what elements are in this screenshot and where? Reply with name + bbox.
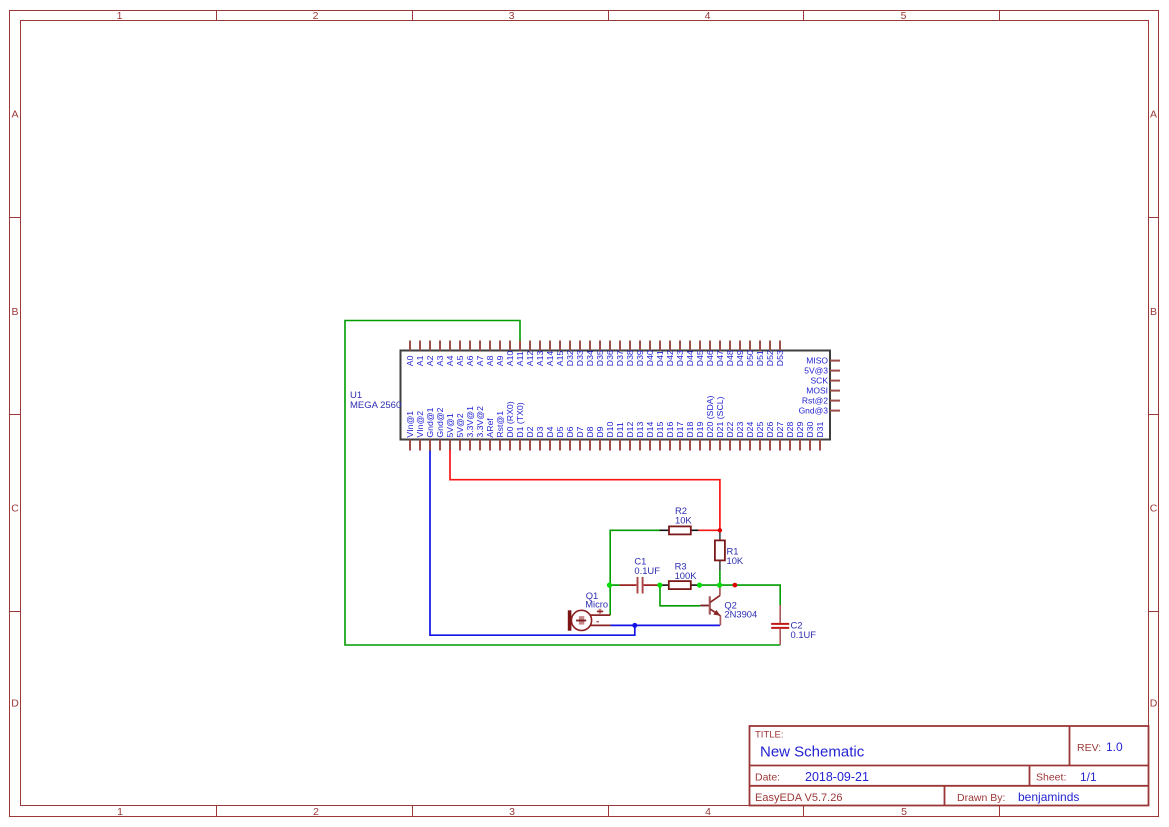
svg-text:3.3V@1: 3.3V@1 <box>465 406 475 438</box>
microphone Q1 <box>568 590 611 631</box>
svg-text:5: 5 <box>901 10 907 22</box>
svg-text:C: C <box>11 503 19 515</box>
svg-text:A15: A15 <box>555 351 565 367</box>
svg-text:Micro: Micro <box>585 599 608 610</box>
pin D39 (top) <box>635 341 645 367</box>
capacitor C1 <box>610 556 660 594</box>
pin D33 (top) <box>575 341 585 367</box>
pin A11 (top) <box>515 341 525 367</box>
svg-text:D45: D45 <box>695 350 705 366</box>
wire: green main node R3 right to C2 top <box>700 585 781 605</box>
pin D6 (bottom) <box>565 426 575 450</box>
pin D52 (top) <box>765 341 775 367</box>
pin 3.3V@1 (bottom) <box>465 406 475 451</box>
pin MOSI (right) <box>806 386 840 396</box>
pin D45 (top) <box>695 341 705 367</box>
pin A3 (top) <box>435 341 445 367</box>
svg-text:A5: A5 <box>455 355 465 366</box>
pin ARef (bottom) <box>485 418 495 451</box>
svg-text:B: B <box>1150 306 1157 318</box>
svg-text:A13: A13 <box>535 351 545 367</box>
svg-text:D35: D35 <box>595 350 605 366</box>
pin D34 (top) <box>585 341 595 367</box>
pin Rst@2 (right) <box>802 396 840 406</box>
svg-text:1.0: 1.0 <box>1106 740 1123 754</box>
pin 5V@3 (right) <box>804 366 840 376</box>
svg-text:D30: D30 <box>805 421 815 437</box>
svg-text:A8: A8 <box>485 355 495 366</box>
svg-text:Rst@1: Rst@1 <box>495 411 505 438</box>
pin A9 (top) <box>495 341 505 367</box>
svg-text:SCK: SCK <box>811 376 829 386</box>
title block <box>750 726 1149 806</box>
wire: green C1 node down to Q2 base <box>660 585 700 606</box>
junction dot green node B <box>657 583 662 588</box>
pin VIn@1 (bottom) <box>405 411 415 451</box>
pin D0 (RX0) (bottom) <box>505 401 515 450</box>
svg-text:2: 2 <box>313 806 319 818</box>
svg-text:3: 3 <box>509 10 515 22</box>
svg-text:D7: D7 <box>575 426 585 437</box>
pin A4 (top) <box>445 341 455 367</box>
wire: green R2 left leg down to mic plus <box>610 530 660 615</box>
pin A1 (top) <box>415 341 425 367</box>
svg-text:D51: D51 <box>755 350 765 366</box>
pin A5 (top) <box>455 341 465 367</box>
pin D12 (bottom) <box>625 421 635 450</box>
pin D20 (SDA) (bottom) <box>705 395 715 450</box>
wire: red 5V from pin 5V@1 to R1/R2 junction <box>450 450 720 530</box>
pin D19 (bottom) <box>695 421 705 450</box>
svg-text:D38: D38 <box>625 350 635 366</box>
svg-text:D53: D53 <box>775 350 785 366</box>
svg-text:D19: D19 <box>695 421 705 437</box>
svg-text:VIn@1: VIn@1 <box>405 411 415 438</box>
pin D41 (top) <box>655 341 665 367</box>
pin Gnd@3 (right) <box>799 406 840 416</box>
svg-text:10K: 10K <box>675 514 692 525</box>
junction dot red node E <box>733 583 738 588</box>
pin D4 (bottom) <box>545 426 555 450</box>
svg-text:B: B <box>11 306 18 318</box>
pin Rst@1 (bottom) <box>495 411 505 451</box>
pin D43 (top) <box>675 341 685 367</box>
svg-text:2N3904: 2N3904 <box>724 609 757 620</box>
svg-text:D0 (RX0): D0 (RX0) <box>505 401 515 437</box>
pin D1 (TX0) (bottom) <box>515 402 525 450</box>
svg-text:Sheet:: Sheet: <box>1036 772 1066 784</box>
pin D31 (bottom) <box>815 421 825 450</box>
svg-text:0.1UF: 0.1UF <box>634 565 660 576</box>
svg-text:VIn@2: VIn@2 <box>415 411 425 438</box>
pin D24 (bottom) <box>745 421 755 450</box>
svg-text:1/1: 1/1 <box>1080 770 1097 784</box>
svg-text:4: 4 <box>705 10 711 22</box>
pin D5 (bottom) <box>555 426 565 450</box>
wire: blue ground from pin Gnd@1 to emitter line <box>430 451 635 636</box>
svg-text:100K: 100K <box>675 570 698 581</box>
svg-text:1: 1 <box>117 10 123 22</box>
svg-text:A3: A3 <box>435 355 445 366</box>
capacitor C2 <box>771 605 816 645</box>
resistor R2 <box>660 505 720 534</box>
pin D51 (top) <box>755 341 765 367</box>
pin D40 (top) <box>645 341 655 367</box>
svg-text:REV:: REV: <box>1077 742 1101 754</box>
svg-text:A9: A9 <box>495 355 505 366</box>
svg-text:A4: A4 <box>445 355 455 366</box>
svg-text:benjaminds: benjaminds <box>1018 790 1079 804</box>
pin D14 (bottom) <box>645 421 655 450</box>
pin 5V@2 (bottom) <box>455 413 465 450</box>
svg-text:A12: A12 <box>525 351 535 367</box>
pin D22 (bottom) <box>725 421 735 450</box>
pin D26 (bottom) <box>765 421 775 450</box>
svg-text:A1: A1 <box>415 355 425 366</box>
svg-text:MEGA 2560: MEGA 2560 <box>350 400 401 411</box>
pin D29 (bottom) <box>795 421 805 450</box>
svg-text:D: D <box>1150 698 1158 710</box>
svg-text:D41: D41 <box>655 350 665 366</box>
pin A12 (top) <box>525 341 535 367</box>
svg-text:D28: D28 <box>785 421 795 437</box>
svg-text:3.3V@2: 3.3V@2 <box>475 406 485 438</box>
svg-text:D26: D26 <box>765 421 775 437</box>
svg-text:D40: D40 <box>645 350 655 366</box>
svg-text:4: 4 <box>705 806 711 818</box>
svg-text:A0: A0 <box>405 355 415 366</box>
junction dot red at R1 top <box>718 528 722 532</box>
pin 3.3V@2 (bottom) <box>475 406 485 451</box>
svg-text:10K: 10K <box>727 555 744 566</box>
resistor R3 <box>660 561 700 590</box>
pin D46 (top) <box>705 341 715 367</box>
svg-text:Gnd@1: Gnd@1 <box>425 407 435 437</box>
svg-text:New Schematic: New Schematic <box>760 744 865 761</box>
pin VIn@2 (bottom) <box>415 411 425 451</box>
pin D48 (top) <box>725 341 735 367</box>
pin A10 (top) <box>505 341 515 367</box>
svg-text:ARef: ARef <box>485 418 495 438</box>
svg-text:D48: D48 <box>725 350 735 366</box>
pin A13 (top) <box>535 341 545 367</box>
pin D47 (top) <box>715 341 725 367</box>
svg-text:D50: D50 <box>745 350 755 366</box>
pin D27 (bottom) <box>775 421 785 450</box>
pin D7 (bottom) <box>575 426 585 450</box>
svg-text:D20 (SDA): D20 (SDA) <box>705 395 715 437</box>
svg-text:D5: D5 <box>555 426 565 437</box>
svg-text:D6: D6 <box>565 426 575 437</box>
pin A8 (top) <box>485 341 495 367</box>
svg-text:Rst@2: Rst@2 <box>802 396 828 406</box>
transistor Q2 2N3904 <box>700 587 757 626</box>
pin D9 (bottom) <box>595 426 605 450</box>
svg-text:5V@1: 5V@1 <box>445 413 455 437</box>
pin D42 (top) <box>665 341 675 367</box>
svg-text:A14: A14 <box>545 351 555 367</box>
svg-text:EasyEDA V5.7.26: EasyEDA V5.7.26 <box>755 792 842 804</box>
pin D3 (bottom) <box>535 426 545 450</box>
svg-text:Gnd@3: Gnd@3 <box>799 406 829 416</box>
pin D38 (top) <box>625 341 635 367</box>
pin D35 (top) <box>595 341 605 367</box>
junction dot green node D (collector/R1) <box>717 583 722 588</box>
pin A14 (top) <box>545 341 555 367</box>
svg-text:D22: D22 <box>725 421 735 437</box>
pin D16 (bottom) <box>665 421 675 450</box>
pin D2 (bottom) <box>525 426 535 450</box>
pin D44 (top) <box>685 341 695 367</box>
svg-text:D32: D32 <box>565 350 575 366</box>
svg-text:D: D <box>11 698 19 710</box>
svg-text:Gnd@2: Gnd@2 <box>435 407 445 437</box>
svg-text:D1 (TX0): D1 (TX0) <box>515 402 525 437</box>
pin A7 (top) <box>475 341 485 367</box>
IC U1 MEGA 2560 body <box>401 351 831 440</box>
svg-text:D8: D8 <box>585 426 595 437</box>
svg-text:D49: D49 <box>735 350 745 366</box>
svg-text:D15: D15 <box>655 421 665 437</box>
pin D18 (bottom) <box>685 421 695 450</box>
svg-text:2018-09-21: 2018-09-21 <box>805 770 869 784</box>
wire: green net from pin A11 loop to left side <box>345 321 780 646</box>
svg-text:D9: D9 <box>595 426 605 437</box>
svg-text:D2: D2 <box>525 426 535 437</box>
svg-text:C: C <box>1150 503 1158 515</box>
svg-text:D23: D23 <box>735 421 745 437</box>
resistor R1 <box>715 530 744 570</box>
pin Gnd@1 (bottom) <box>425 407 435 450</box>
junction dot green node C <box>697 583 702 588</box>
pin D32 (top) <box>565 341 575 367</box>
svg-text:D3: D3 <box>535 426 545 437</box>
svg-text:D37: D37 <box>615 350 625 366</box>
pin Gnd@2 (bottom) <box>435 407 445 450</box>
svg-text:D34: D34 <box>585 350 595 366</box>
svg-text:Date:: Date: <box>755 772 780 784</box>
svg-text:D33: D33 <box>575 350 585 366</box>
svg-text:D18: D18 <box>685 421 695 437</box>
pin D8 (bottom) <box>585 426 595 450</box>
wire: blue mic minus to Q2 emitter <box>611 624 721 626</box>
svg-text:MISO: MISO <box>806 356 828 366</box>
svg-text:D46: D46 <box>705 350 715 366</box>
svg-text:MOSI: MOSI <box>806 386 828 396</box>
svg-text:D44: D44 <box>685 350 695 366</box>
pin D28 (bottom) <box>785 421 795 450</box>
pin 5V@1 (bottom) <box>445 413 455 450</box>
svg-text:D21 (SCL): D21 (SCL) <box>715 396 725 437</box>
pin A0 (top) <box>405 341 415 367</box>
svg-text:TITLE:: TITLE: <box>755 730 784 741</box>
svg-text:D10: D10 <box>605 421 615 437</box>
pin D49 (top) <box>735 341 745 367</box>
svg-text:D42: D42 <box>665 350 675 366</box>
svg-text:D29: D29 <box>795 421 805 437</box>
pin D30 (bottom) <box>805 421 815 450</box>
svg-text:D27: D27 <box>775 421 785 437</box>
pin D25 (bottom) <box>755 421 765 450</box>
svg-text:D36: D36 <box>605 350 615 366</box>
svg-text:D17: D17 <box>675 421 685 437</box>
svg-text:D13: D13 <box>635 421 645 437</box>
svg-text:3: 3 <box>509 806 515 818</box>
pin D11 (bottom) <box>615 422 625 450</box>
pin D10 (bottom) <box>605 421 615 450</box>
pin D15 (bottom) <box>655 421 665 450</box>
svg-text:Drawn By:: Drawn By: <box>957 792 1005 804</box>
svg-text:2: 2 <box>313 10 319 22</box>
junction dot blue emitter/ground <box>632 623 637 628</box>
pin SCK (right) <box>811 376 840 386</box>
pin A15 (top) <box>555 341 565 367</box>
svg-text:D43: D43 <box>675 350 685 366</box>
svg-text:D24: D24 <box>745 421 755 437</box>
pin A6 (top) <box>465 341 475 367</box>
svg-text:D16: D16 <box>665 421 675 437</box>
pin D50 (top) <box>745 341 755 367</box>
svg-text:0.1UF: 0.1UF <box>791 629 817 640</box>
svg-text:D14: D14 <box>645 421 655 437</box>
pin D21 (SCL) (bottom) <box>715 396 725 450</box>
svg-text:A11: A11 <box>515 351 525 366</box>
svg-text:A: A <box>11 109 18 121</box>
svg-text:D31: D31 <box>815 421 825 437</box>
svg-text:D12: D12 <box>625 421 635 437</box>
pin MISO (right) <box>806 356 840 366</box>
svg-text:5: 5 <box>901 806 907 818</box>
svg-text:D47: D47 <box>715 350 725 366</box>
svg-text:5V@2: 5V@2 <box>455 413 465 437</box>
svg-text:A7: A7 <box>475 355 485 366</box>
svg-text:A2: A2 <box>425 355 435 366</box>
wire: green R1 bottom to node <box>719 570 721 585</box>
pin D13 (bottom) <box>635 421 645 450</box>
pin D36 (top) <box>605 341 615 367</box>
svg-text:D25: D25 <box>755 421 765 437</box>
svg-text:D39: D39 <box>635 350 645 366</box>
svg-text:D52: D52 <box>765 350 775 366</box>
junction dot green node A <box>607 583 612 588</box>
svg-text:A: A <box>1150 109 1157 121</box>
svg-text:1: 1 <box>117 806 123 818</box>
pin D17 (bottom) <box>675 421 685 450</box>
pin A2 (top) <box>425 341 435 367</box>
pin D37 (top) <box>615 341 625 367</box>
svg-text:A10: A10 <box>505 351 515 367</box>
pin D23 (bottom) <box>735 421 745 450</box>
svg-text:D4: D4 <box>545 426 555 437</box>
svg-text:5V@3: 5V@3 <box>804 366 828 376</box>
svg-text:D11: D11 <box>615 422 625 437</box>
svg-text:A6: A6 <box>465 355 475 366</box>
pin D53 (top) <box>775 341 785 367</box>
